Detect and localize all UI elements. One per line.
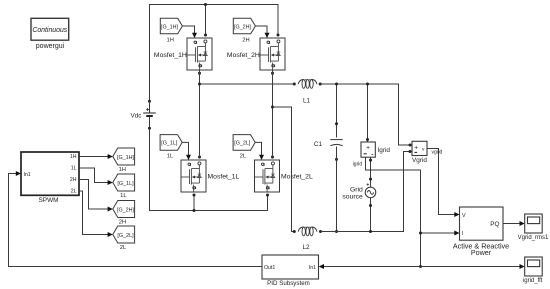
wire: leg1 to L1 left terminal	[200, 83, 295, 85]
wire: SPWM 1L to Goto G_1L	[79, 168, 108, 183]
wire: leg1 midpoint (1H source to 1L drain)	[199, 71, 201, 158]
svg-text:Power: Power	[471, 248, 492, 257]
svg-text:1L: 1L	[71, 165, 77, 171]
transistor Mosfet_2H	[227, 34, 285, 75]
svg-text:[G_1H]: [G_1H]	[161, 24, 179, 30]
svg-text:Continuous: Continuous	[32, 27, 67, 34]
svg-text:2L: 2L	[240, 154, 247, 160]
node: igrid junction to I input	[419, 232, 422, 235]
node: leg1 / L1 branch junction	[198, 83, 201, 86]
wire: Igrid - terminal to Grid source	[370, 157, 372, 187]
wire: from tag G_1H to Mosfet_1H gate	[182, 26, 194, 33]
wire: DC+ top rail from Vdc up and across to Mosfet_2H drain	[150, 5, 279, 102]
wire: DC- rail from Vdc down and across to Mosfet_2L source	[150, 128, 268, 210]
inductor L1	[293, 80, 322, 105]
node: igrid junction on bottom feedback line	[419, 265, 422, 268]
wire: from tag G_2L to Mosfet_2L gate	[255, 142, 261, 155]
wire: vgrid signal from Vgrid v output down to P-Q block V input	[427, 149, 455, 215]
svg-text:In1: In1	[24, 172, 31, 178]
svg-text:+: +	[414, 144, 418, 151]
wire: leg2 midpoint (2H source to 2L drain)	[272, 71, 274, 158]
goto tag G_2H	[113, 201, 135, 226]
wire: igrid to PID Subsystem In1 (left)	[324, 266, 421, 268]
svg-text:I: I	[462, 231, 464, 237]
goto tag G_1H	[113, 148, 135, 173]
from tag G_1L	[160, 135, 182, 160]
svg-text:1H: 1H	[70, 154, 77, 160]
svg-text:igrid: igrid	[353, 161, 363, 167]
node: grid return rail / source junction	[369, 230, 372, 233]
svg-text:[G_1H]: [G_1H]	[117, 155, 135, 161]
wire: L1 right terminal to Vgrid + input	[320, 84, 409, 145]
svg-text:L1: L1	[303, 97, 311, 104]
svg-text:[G_1L]: [G_1L]	[117, 181, 134, 187]
node: DC- rail / 1L source junction	[193, 209, 196, 212]
wire: Igrid + branch from L1 line	[367, 84, 369, 142]
svg-text:1H: 1H	[119, 167, 126, 173]
from tag G_2H	[233, 18, 255, 43]
svg-text:1L: 1L	[167, 154, 174, 160]
svg-text:[G_2H]: [G_2H]	[234, 24, 252, 30]
svg-text:1H: 1H	[166, 37, 173, 43]
svg-text:Mosfet_1L: Mosfet_1L	[208, 173, 240, 180]
wire: PID Out1 feedback to SPWM In1	[9, 174, 263, 267]
wire: Mosfet_1H drain drop from top rail	[205, 5, 207, 35]
svg-text:Igrid: Igrid	[378, 147, 391, 154]
wire: L2 right terminal along grid return rail to Vgrid - input	[321, 152, 410, 232]
svg-text:In1: In1	[309, 265, 316, 271]
goto tag G_2L	[113, 226, 135, 251]
svg-text:Vgrid_rms1: Vgrid_rms1	[518, 235, 549, 241]
wire: SPWM 2H to Goto G_2H	[79, 180, 108, 210]
wire: SPWM 1H to Goto G_1H	[79, 156, 108, 158]
AC source Grid source	[342, 183, 375, 200]
svg-text:PQ: PQ	[490, 221, 499, 228]
capacitor C1	[314, 122, 343, 161]
wire: igrid branch to P-Q block I input	[421, 232, 455, 234]
svg-text:C1: C1	[314, 141, 323, 148]
wire: SPWM 2L to Goto G_2L	[79, 191, 108, 235]
subsystem SPWM	[21, 152, 79, 204]
node: L1 line / Igrid junction	[366, 83, 369, 86]
svg-text:2H: 2H	[119, 219, 126, 225]
transistor Mosfet_2L	[255, 156, 313, 197]
wire: C1 branch (top)	[336, 84, 338, 138]
svg-text:Vdc: Vdc	[130, 112, 142, 119]
svg-text:[G_2L]: [G_2L]	[234, 141, 251, 147]
svg-text:[G_2L]: [G_2L]	[117, 233, 134, 239]
svg-text:Mosfet_1H: Mosfet_1H	[154, 52, 187, 59]
from tag G_1H	[160, 18, 182, 43]
Vdc DC voltage source	[130, 100, 155, 130]
svg-text:Vgrid: Vgrid	[412, 157, 427, 164]
wire: igrid signal from Igrid i output	[366, 157, 421, 266]
svg-text:V: V	[462, 213, 466, 219]
svg-text:Out1: Out1	[264, 265, 275, 271]
powergui block	[31, 18, 69, 50]
wire: igrid to igrid_fft scope (right)	[421, 266, 521, 268]
svg-text:L2: L2	[302, 244, 310, 251]
svg-text:2L: 2L	[71, 188, 77, 194]
svg-text:2H: 2H	[242, 37, 249, 43]
wire: Grid source bottom to grid return rail	[370, 198, 372, 232]
svg-text:PID Subsystem: PID Subsystem	[267, 280, 310, 287]
wire: PQ output to scope	[503, 223, 520, 225]
svg-text:+: +	[366, 145, 370, 152]
node: grid return rail / C1 junction	[335, 230, 338, 233]
svg-text:Mosfet_2H: Mosfet_2H	[227, 52, 260, 59]
svg-text:igrid_fft: igrid_fft	[523, 278, 543, 284]
wire: leg2 branch to L2	[273, 107, 295, 232]
svg-text:Grid: Grid	[350, 186, 363, 193]
wire: Mosfet_1L source drop to DC- rail	[193, 195, 195, 211]
wire: C1 branch (bottom) to grid return rail	[336, 147, 338, 232]
node: top rail / 1H drain junction	[204, 3, 207, 6]
svg-text:2L: 2L	[120, 245, 127, 251]
current measurement Igrid	[361, 142, 390, 157]
svg-text:source: source	[342, 193, 363, 200]
scope igrid_fft	[523, 257, 543, 284]
svg-text:2H: 2H	[70, 177, 77, 183]
svg-text:vgrid: vgrid	[432, 149, 443, 155]
svg-text:Mosfet_2L: Mosfet_2L	[281, 173, 313, 180]
svg-text:powergui: powergui	[36, 43, 65, 50]
transistor Mosfet_1L	[181, 156, 239, 197]
wire: from tag G_2H to Mosfet_2H gate	[255, 26, 267, 33]
from tag G_2L	[233, 135, 255, 160]
goto tag G_1L	[113, 174, 135, 199]
svg-text:[G_2H]: [G_2H]	[117, 207, 135, 213]
node: L1 line / C1 junction	[335, 83, 338, 86]
inductor L2	[293, 227, 322, 251]
svg-text:1L: 1L	[120, 193, 127, 199]
voltage measurement Vgrid	[409, 141, 428, 164]
svg-text:SPWM: SPWM	[39, 197, 59, 204]
scope Vgrid_rms1	[518, 214, 549, 241]
svg-text:[G_1L]: [G_1L]	[161, 141, 178, 147]
wire: from tag G_1L to Mosfet_1L gate	[182, 142, 188, 155]
subsystem PID Subsystem	[262, 255, 319, 287]
node: leg2 branch junction	[271, 106, 274, 109]
transistor Mosfet_1H	[154, 34, 212, 75]
subsystem Active & Reactive Power	[453, 207, 509, 257]
